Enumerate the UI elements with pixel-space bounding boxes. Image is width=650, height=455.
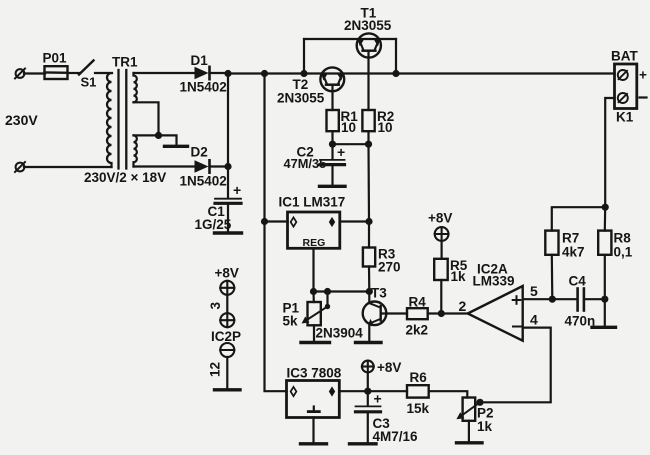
ground P1 <box>301 341 330 344</box>
svg-text:IC2P: IC2P <box>211 329 241 344</box>
transformer TR1 primary winding <box>107 73 112 167</box>
svg-text:+: + <box>233 182 241 198</box>
node C2 junction <box>329 141 336 148</box>
node P1 wiper arrow joint <box>325 304 330 309</box>
wire tap junction to bottom winding lead <box>134 134 159 136</box>
resistor R3 <box>363 248 375 267</box>
ground IC2P <box>215 388 241 391</box>
transistor T1 2N3055 <box>357 33 381 57</box>
potentiometer P1 <box>302 302 328 325</box>
label - (BAT) <box>640 96 647 98</box>
label - input (IC2A) <box>513 326 521 328</box>
wire T2 base down to R1 <box>331 85 333 110</box>
ground C3 <box>350 442 377 445</box>
wire D1 junction down to D2 junction <box>227 74 229 167</box>
node rail junction at C1 branch <box>224 70 231 77</box>
node IC1 output junction <box>365 218 372 225</box>
wire R6 to P2 <box>429 391 468 397</box>
svg-text:+8V: +8V <box>428 211 452 226</box>
wire down to R3 <box>368 222 370 248</box>
svg-text:2N3055: 2N3055 <box>277 91 325 106</box>
wire bottom input to transformer primary <box>24 166 112 168</box>
svg-text:1k: 1k <box>477 419 493 434</box>
diode D2 <box>195 160 229 172</box>
svg-text:D2: D2 <box>191 145 208 160</box>
ground R8 <box>592 326 616 329</box>
transformer TR1 secondary winding top <box>134 73 137 102</box>
node C4 right junction <box>601 296 608 303</box>
svg-text:R6: R6 <box>410 370 428 385</box>
svg-text:C4: C4 <box>569 274 587 289</box>
wire IC1 adj pin down <box>312 248 314 291</box>
svg-text:1G/25: 1G/25 <box>195 217 232 232</box>
node adj junction <box>310 288 317 295</box>
svg-text:0,1: 0,1 <box>614 245 633 260</box>
wire +8V to R5 <box>441 241 443 259</box>
svg-text:3: 3 <box>208 302 223 310</box>
svg-text:4M7/16: 4M7/16 <box>373 429 419 444</box>
svg-text:2N3904: 2N3904 <box>316 326 364 341</box>
pin marker input diamond (IC3) <box>291 387 297 396</box>
node T3 collector junction <box>366 288 373 295</box>
terminal BAT plus <box>618 70 628 80</box>
wire vertical feed to regulators <box>265 74 287 392</box>
node D2 cathode junction <box>224 163 231 170</box>
svg-text:1N5402: 1N5402 <box>180 174 227 189</box>
diode D1 <box>195 67 229 79</box>
supply terminal +8V (R5) <box>435 227 449 241</box>
svg-text:4: 4 <box>530 312 538 328</box>
ground C1 <box>215 231 242 234</box>
wire secondary bottom lead to D2 <box>134 165 196 167</box>
wire R7 bottom to pin5 node <box>551 255 554 299</box>
svg-text:D1: D1 <box>191 53 209 68</box>
potentiometer P2 <box>456 398 480 421</box>
wire riser left T1 <box>303 39 305 74</box>
capacitor C1 <box>215 199 241 232</box>
svg-text:230V: 230V <box>5 112 38 128</box>
wire P1 bottom lead <box>313 325 315 341</box>
label + input (IC2A) <box>513 296 521 304</box>
wire pin 4 row to P2 wiper <box>480 328 551 403</box>
node center tap junction <box>155 132 162 139</box>
svg-text:IC1 LM317: IC1 LM317 <box>279 195 346 210</box>
svg-text:12: 12 <box>208 362 223 377</box>
wire T3 emitter down <box>368 324 370 342</box>
wire riser right T1 <box>395 39 397 74</box>
wire link R1-R2 bottoms <box>333 143 369 145</box>
wire R1 bottom lead <box>331 131 333 144</box>
terminal bottom-left input <box>15 162 25 172</box>
transistor T2 2N3055 <box>320 67 344 91</box>
capacitor C3 <box>356 406 381 442</box>
wire T1 top link <box>304 38 396 40</box>
wire secondary top lead to D1 <box>134 72 196 74</box>
svg-text:5: 5 <box>530 283 538 299</box>
wire +8V terminal to output rail <box>367 373 369 406</box>
regulator IC1 body <box>288 212 340 248</box>
capacitor C2 <box>320 160 345 185</box>
pin marker input diamond (IC1) <box>291 217 297 226</box>
svg-text:47M/35: 47M/35 <box>284 156 327 171</box>
ground T3 <box>356 341 382 344</box>
wire fuse to switch <box>68 72 81 74</box>
node rail junction feed line <box>261 70 268 77</box>
svg-text:5k: 5k <box>283 314 299 329</box>
wire sense row to R7 <box>552 207 605 230</box>
svg-text:R4: R4 <box>409 295 427 310</box>
svg-text:+: + <box>374 391 382 407</box>
wire R2 junction down to IC1 output node <box>367 144 370 221</box>
wire IC3 output <box>339 390 407 392</box>
wire IC1 output <box>340 220 369 222</box>
ground center tap <box>165 145 188 148</box>
node IC1 input junction <box>261 218 268 225</box>
svg-text:+: + <box>639 68 647 83</box>
wire P1 top lead <box>312 292 314 303</box>
comparator IC2A triangle <box>468 286 523 341</box>
wire adj row <box>314 290 370 292</box>
node P1 wiper junction <box>324 288 331 295</box>
wire pin 3 <box>226 295 228 313</box>
svg-text:2N3055: 2N3055 <box>344 18 392 33</box>
ground IC3 <box>301 442 327 445</box>
svg-text:10: 10 <box>341 120 356 135</box>
transformer TR1 secondary winding bottom <box>134 135 137 166</box>
wire P2 bottom lead <box>468 421 470 442</box>
wire BAT minus sense line <box>605 98 614 207</box>
svg-text:1k: 1k <box>451 269 467 284</box>
wire T3 base to R4 <box>381 312 407 314</box>
terminal top-left input <box>15 69 25 79</box>
svg-text:470n: 470n <box>565 314 596 329</box>
svg-text:R7: R7 <box>562 231 579 246</box>
node T2 collector riser junction <box>300 70 307 77</box>
power pin minus (IC2P) <box>220 343 234 357</box>
switch S1 <box>79 61 94 75</box>
resistor R6 <box>407 385 429 397</box>
power pin plus (IC2P) <box>220 313 234 327</box>
node +8V output junction <box>364 388 371 395</box>
supply terminal +8V (IC2P) <box>220 281 234 295</box>
svg-text:1N5402: 1N5402 <box>180 80 227 95</box>
wire T1 base down to R2 <box>367 51 369 110</box>
transformer TR1 core <box>119 70 127 169</box>
wire switch to transformer <box>95 72 112 74</box>
resistor R2 <box>362 110 374 131</box>
transistor T3 2N3904 <box>363 302 387 326</box>
node rail junction right riser <box>392 70 399 77</box>
terminal BAT minus <box>618 93 628 103</box>
regulator IC3 body <box>287 381 340 418</box>
svg-text:LM339: LM339 <box>473 274 515 289</box>
svg-text:10: 10 <box>378 120 393 135</box>
svg-text:2k2: 2k2 <box>406 323 429 338</box>
pin marker output diamond (IC3) <box>329 386 335 396</box>
svg-text:+: + <box>337 144 345 160</box>
svg-text:BAT: BAT <box>611 49 638 64</box>
wire input to fuse <box>24 72 45 74</box>
battery connector K1 body <box>615 64 637 109</box>
wire R2 bottom lead <box>367 131 369 144</box>
svg-text:P01: P01 <box>43 51 68 66</box>
wire R3 bottom to T3 collector node <box>368 267 370 292</box>
svg-text:T3: T3 <box>371 286 387 301</box>
resistor R5 <box>434 259 448 280</box>
main positive rail <box>228 72 615 74</box>
supply terminal +8V (IC3 output) <box>362 361 374 373</box>
ground P2 <box>457 441 483 444</box>
svg-text:2: 2 <box>459 298 467 314</box>
wire P1 wiper riser <box>326 292 328 307</box>
svg-text:+8V: +8V <box>377 360 401 375</box>
svg-text:TR1: TR1 <box>112 55 138 70</box>
wire down to C1 <box>227 167 229 199</box>
wire R8 bottom to ground <box>604 255 606 326</box>
resistor R4 <box>407 308 428 319</box>
wire feed to IC1 input <box>265 220 288 222</box>
svg-text:230V/2 × 18V: 230V/2 × 18V <box>84 170 166 185</box>
svg-text:K1: K1 <box>616 110 634 125</box>
wire down to C2 <box>331 144 333 159</box>
wire IC3 ground pin <box>312 418 314 443</box>
capacitor C4 <box>578 289 605 311</box>
svg-text:+8V: +8V <box>215 266 239 281</box>
wire T3 collector into circle <box>368 292 370 304</box>
node R2 output junction <box>365 141 372 148</box>
wire pin 5 output row <box>523 298 577 300</box>
node pin5 junction <box>549 296 556 303</box>
resistor R7 <box>545 231 558 255</box>
node R5 junction <box>438 310 445 317</box>
node P2 wiper junction <box>476 399 483 406</box>
wire secondary tap: top winding bottom lead <box>134 102 159 135</box>
svg-text:15k: 15k <box>407 401 430 416</box>
ground C2 <box>320 185 346 188</box>
wire pin 12 <box>226 357 228 388</box>
fuse P01 <box>45 66 68 79</box>
pin marker ground (IC3) <box>308 407 319 412</box>
svg-text:270: 270 <box>378 260 401 275</box>
svg-text:S1: S1 <box>81 75 97 90</box>
resistor R8 <box>598 231 611 255</box>
node sense junction <box>602 204 609 211</box>
resistor R1 <box>327 110 339 131</box>
wire center tap to ground <box>159 135 177 144</box>
wire R5 bottom to node <box>440 280 442 314</box>
pin marker output diamond (IC1) <box>329 217 335 227</box>
wire sense down to R8 <box>604 207 607 230</box>
svg-text:R8: R8 <box>614 231 632 246</box>
wire R4 to comparator output <box>428 312 468 314</box>
svg-text:4k7: 4k7 <box>562 245 585 260</box>
svg-text:IC3 7808: IC3 7808 <box>287 366 342 381</box>
